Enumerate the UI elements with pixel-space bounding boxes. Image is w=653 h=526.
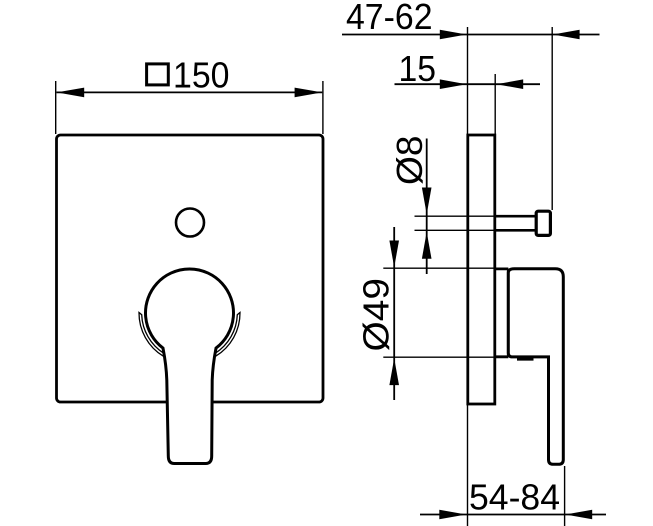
sleeve side view [495, 269, 508, 357]
dim 15: left arrowhead [440, 79, 467, 89]
knob + lever side view [508, 269, 563, 465]
rosette crescent arc right [215, 313, 240, 357]
spindle top line [496, 215, 537, 218]
svg-text:150: 150 [173, 55, 230, 96]
dim Ø8: dimension line [426, 139, 428, 275]
plate front view [57, 135, 324, 402]
dim 150: left arrowhead [57, 88, 84, 98]
spindle bottom line [496, 229, 537, 232]
stop ring dash on knob bottom [517, 357, 534, 361]
svg-text:47-62: 47-62 [346, 0, 433, 37]
small circle on plate [176, 209, 204, 237]
dim 54-84: dimension line [420, 514, 606, 516]
extension line lever face [564, 466, 566, 526]
dim 150: square symbol [147, 64, 169, 85]
dim 15: right arrowhead [496, 79, 523, 89]
dim 150: right extension line [322, 81, 324, 134]
dim 47-62: dimension line [342, 34, 600, 36]
screw head [536, 211, 550, 235]
dim 47-62: left arrowhead [440, 30, 467, 40]
dim Ø8: lower arrowhead [422, 232, 432, 259]
dim 15: dimension line [395, 83, 541, 85]
svg-text:Ø8: Ø8 [389, 136, 430, 186]
dim Ø49: upper extension line [383, 267, 507, 269]
dim 54-84: left arrowhead [439, 510, 466, 520]
dim Ø8: upper extension line [415, 215, 497, 217]
dim 47-62: right arrowhead [553, 30, 580, 40]
dim Ø8: lower extension line [415, 229, 497, 231]
dim Ø49: dimension line [393, 227, 395, 400]
dim 150: right arrowhead [295, 88, 323, 98]
dim Ø8: upper arrowhead [422, 188, 432, 215]
extension line screw head face [551, 27, 553, 210]
dim Ø49: upper arrowhead [389, 241, 399, 268]
plate side view [468, 135, 495, 404]
handle lever + knob front view [146, 269, 234, 464]
dim Ø49: lower arrowhead [389, 358, 399, 385]
dim 150: left extension line [55, 81, 57, 134]
svg-text:54-84: 54-84 [469, 476, 560, 517]
extension line wall face (long vertical) [467, 27, 469, 526]
rosette crescent arc left [139, 313, 164, 357]
svg-text:15: 15 [399, 48, 437, 89]
dim 54-84: right arrowhead [565, 510, 592, 520]
dim 150: dimension line [57, 91, 323, 93]
extension line plate front face [494, 74, 496, 135]
dim Ø49: lower extension line [383, 356, 496, 358]
svg-text:Ø49: Ø49 [355, 278, 396, 352]
